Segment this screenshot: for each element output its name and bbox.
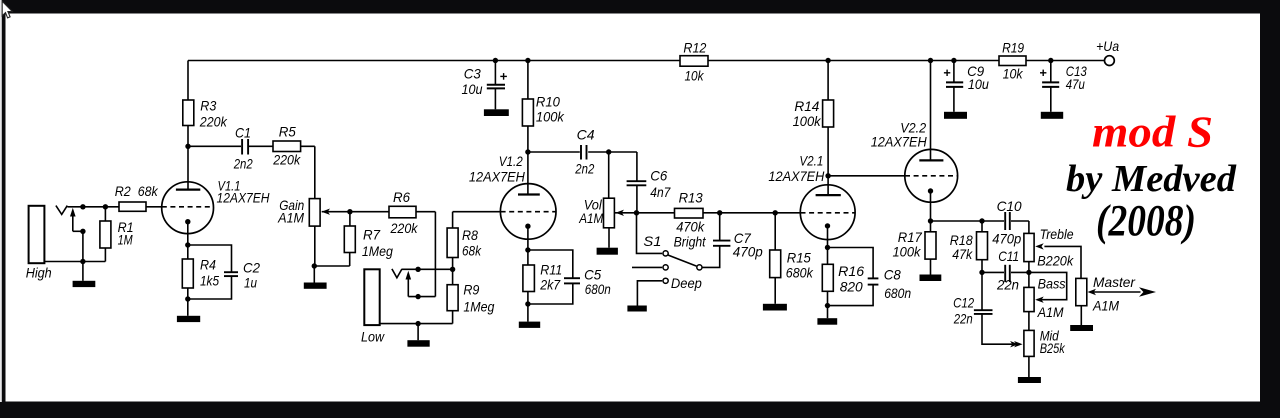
wire: C9 stem bbox=[953, 61, 955, 82]
svg-text:220k: 220k bbox=[390, 220, 419, 236]
svg-text:R4: R4 bbox=[200, 257, 216, 273]
svg-text:R8: R8 bbox=[462, 227, 478, 243]
wire: B+ supply rail bbox=[188, 60, 1105, 62]
ground (deep switch) bbox=[627, 306, 646, 312]
switch S1 contacts bbox=[663, 251, 668, 256]
ground (C13) bbox=[1041, 112, 1063, 119]
svg-text:S1: S1 bbox=[643, 233, 661, 249]
resistor R18 bbox=[977, 232, 988, 260]
svg-text:2n2: 2n2 bbox=[233, 156, 253, 172]
capacitor C8 bbox=[868, 277, 879, 279]
resistor R17 bbox=[925, 232, 936, 259]
svg-text:High: High bbox=[26, 264, 52, 280]
svg-text:R7: R7 bbox=[363, 227, 381, 243]
svg-text:C11: C11 bbox=[998, 248, 1019, 264]
potentiometer Bass bbox=[1024, 287, 1034, 311]
svg-text:R11: R11 bbox=[540, 262, 562, 278]
wire: S1 middle stub bbox=[632, 266, 662, 268]
svg-text:680n: 680n bbox=[884, 285, 911, 301]
node: row 2 junctions bbox=[979, 270, 984, 275]
svg-text:680k: 680k bbox=[786, 265, 814, 281]
svg-text:100k: 100k bbox=[793, 113, 822, 129]
svg-text:C2: C2 bbox=[243, 260, 260, 276]
ground (high jack) bbox=[73, 281, 96, 287]
white left sliver bbox=[0, 0, 2, 402]
wire: V2.2 cathode column bbox=[930, 191, 932, 221]
svg-text:A1M: A1M bbox=[1092, 298, 1119, 314]
resistor R9 bbox=[447, 285, 458, 311]
wire: V2.1 cathode column bbox=[827, 226, 829, 306]
resistor R11 bbox=[523, 265, 535, 292]
capacitor C5 bbox=[564, 277, 580, 279]
junction dots (input node) bbox=[80, 204, 85, 209]
wire: R3 anode column V1.1 bbox=[187, 61, 189, 190]
mouse cursor bbox=[2, 1, 12, 18]
svg-text:C3: C3 bbox=[464, 66, 481, 82]
ground (gain pot) bbox=[304, 283, 327, 289]
wire: C4 coupling row bbox=[528, 151, 637, 153]
svg-text:100k: 100k bbox=[536, 109, 565, 125]
svg-text:Treble: Treble bbox=[1040, 226, 1074, 242]
wire: S1 deep branch bbox=[637, 281, 662, 306]
wire: tone stack row 2 bbox=[982, 271, 1029, 273]
svg-text:68k: 68k bbox=[138, 183, 159, 199]
svg-text:+Ua: +Ua bbox=[1096, 38, 1119, 54]
wire: C6 column bbox=[636, 152, 638, 181]
svg-text:Deep: Deep bbox=[671, 275, 702, 291]
triode V2.2 bbox=[905, 149, 958, 202]
wire: bass to mid column bbox=[1028, 312, 1030, 331]
svg-text:R9: R9 bbox=[463, 282, 479, 298]
resistor R13 bbox=[675, 208, 704, 218]
wire: tone stack row 1 bbox=[931, 220, 1029, 222]
wire: C12 column to mid wiper bbox=[981, 272, 983, 310]
potentiometer Mid bbox=[1024, 330, 1034, 356]
wire: C2 bypass loop bbox=[188, 245, 232, 272]
wire: V2.2 anode column bbox=[930, 61, 932, 161]
capacitor C11 bbox=[1004, 265, 1011, 282]
electrolytic capacitor C3 bbox=[487, 84, 505, 86]
svg-text:B25k: B25k bbox=[1040, 340, 1066, 356]
resistor R15 bbox=[770, 250, 781, 278]
svg-text:C10: C10 bbox=[997, 198, 1022, 214]
svg-text:22n: 22n bbox=[953, 311, 973, 327]
svg-text:C6: C6 bbox=[650, 168, 667, 184]
ground (master pot) bbox=[1070, 325, 1093, 331]
node: gain cold junction bbox=[312, 263, 317, 268]
ground (V2.1 cathode) bbox=[817, 318, 837, 325]
node: V2.1 cathode junctions bbox=[825, 245, 830, 250]
svg-text:1M: 1M bbox=[118, 232, 133, 248]
ground (V1.2 cathode) bbox=[519, 322, 540, 328]
capacitor C1 bbox=[241, 139, 249, 155]
wire: R7 branch bbox=[349, 212, 351, 226]
wire: S1 bright column bbox=[637, 213, 663, 254]
ground (R17) bbox=[920, 275, 942, 282]
svg-text:47u: 47u bbox=[1066, 76, 1085, 92]
svg-text:10k: 10k bbox=[1003, 66, 1024, 82]
wire: R9 column bbox=[452, 269, 454, 323]
ground (C9) bbox=[944, 112, 967, 119]
electrolytic capacitor C13 bbox=[1042, 81, 1059, 83]
input jack Low bbox=[364, 269, 379, 325]
capacitor C2 bbox=[224, 271, 238, 273]
potentiometer Master bbox=[1076, 278, 1087, 305]
ground (low jack) bbox=[407, 340, 429, 347]
node: rail junctions C3 R10 bbox=[493, 58, 498, 63]
wire: Vol pot column bbox=[608, 152, 610, 198]
svg-text:B220k: B220k bbox=[1037, 253, 1074, 269]
svg-text:2k7: 2k7 bbox=[539, 277, 561, 293]
node: V1.2 anode / C4 junction bbox=[525, 149, 530, 154]
resistor R7 bbox=[344, 226, 355, 253]
svg-text:R10: R10 bbox=[536, 94, 560, 110]
resistor R6 bbox=[389, 206, 416, 218]
svg-text:220k: 220k bbox=[272, 152, 301, 168]
svg-text:470k: 470k bbox=[676, 218, 705, 234]
wire: high jack shorting contact bbox=[72, 217, 74, 232]
svg-text:Bass: Bass bbox=[1038, 276, 1066, 292]
capacitor C4 bbox=[580, 145, 588, 160]
svg-text:12AX7EH: 12AX7EH bbox=[768, 168, 825, 184]
jack tip contact V (Low) bbox=[392, 269, 402, 278]
ground (vol pot) bbox=[597, 248, 618, 255]
svg-text:1u: 1u bbox=[244, 275, 257, 291]
potentiometer Vol bbox=[604, 198, 615, 228]
node: V2.2 cathode junction bbox=[928, 218, 933, 223]
svg-text:820: 820 bbox=[840, 279, 863, 295]
svg-text:1Meg: 1Meg bbox=[463, 299, 494, 315]
svg-text:220k: 220k bbox=[199, 114, 228, 130]
svg-text:12AX7EH: 12AX7EH bbox=[469, 169, 526, 185]
wire: vol wiper row to V2.1 grid bbox=[615, 212, 801, 214]
wire: V2.1 anode to V2.2 grid bbox=[828, 175, 905, 177]
capacitor C10 bbox=[1004, 212, 1011, 230]
wire: C5 bypass loop bbox=[528, 250, 573, 278]
wire: treble wiper to master bbox=[1044, 246, 1081, 278]
wire: master wiper output bbox=[1090, 291, 1141, 293]
svg-text:C12: C12 bbox=[953, 295, 974, 311]
wire: C8 bypass loop bbox=[828, 248, 874, 279]
svg-text:100k: 100k bbox=[893, 244, 922, 260]
resistor R16 bbox=[822, 264, 833, 291]
node: R13/C7 junction bbox=[717, 210, 722, 215]
triode V1.1 bbox=[162, 182, 214, 234]
svg-text:(2008): (2008) bbox=[1096, 196, 1196, 245]
wire: R14 anode column V2.1 bbox=[827, 61, 829, 196]
svg-text:1k5: 1k5 bbox=[200, 273, 219, 289]
wire: bass wiper loop bbox=[1029, 272, 1067, 299]
svg-text:R14: R14 bbox=[794, 98, 819, 114]
resistor R14 bbox=[823, 100, 834, 127]
wire: R17 stem bbox=[930, 221, 932, 232]
svg-text:470p: 470p bbox=[733, 244, 763, 260]
node: rail junctions V2.2 C9 C13 bbox=[928, 58, 933, 63]
output arrow bbox=[1139, 287, 1156, 296]
wire: R1 column bbox=[104, 207, 106, 221]
svg-text:10u: 10u bbox=[462, 81, 483, 97]
resistor R5 bbox=[273, 141, 301, 152]
svg-text:12AX7EH: 12AX7EH bbox=[871, 134, 928, 150]
svg-text:R15: R15 bbox=[787, 250, 811, 266]
capacitor C12 bbox=[974, 309, 993, 311]
node: R3/C1 junction bbox=[185, 144, 190, 149]
svg-text:4n7: 4n7 bbox=[650, 184, 671, 200]
svg-text:R6: R6 bbox=[393, 189, 410, 205]
wire: low jack tip row bbox=[402, 268, 453, 270]
svg-text:C4: C4 bbox=[577, 127, 595, 143]
node: rail junction R14 bbox=[825, 58, 830, 63]
triode V1.2 bbox=[500, 184, 556, 240]
jack switch arrow (High) bbox=[70, 208, 76, 217]
wire: C1 coupling row bbox=[188, 145, 315, 147]
svg-text:10u: 10u bbox=[968, 76, 989, 92]
wire: V1.1 cathode column bbox=[187, 222, 189, 299]
svg-text:Master: Master bbox=[1093, 274, 1136, 290]
wire: R15 column bbox=[774, 213, 776, 250]
node: V1.2 cathode junctions bbox=[525, 247, 530, 252]
svg-text:R3: R3 bbox=[200, 98, 216, 114]
wire: R10 anode column V1.2 bbox=[527, 61, 529, 195]
svg-text:C8: C8 bbox=[884, 267, 901, 283]
resistor R2 bbox=[119, 202, 146, 211]
node: gain wiper / R7 junction bbox=[347, 209, 352, 214]
wire: R8 column and V1.2 grid bbox=[452, 212, 454, 270]
wire: low jack sleeve bbox=[380, 323, 453, 325]
svg-text:68k: 68k bbox=[462, 243, 482, 259]
svg-text:A1M: A1M bbox=[1037, 304, 1064, 320]
wire: Gain pot column bbox=[314, 146, 316, 198]
svg-text:470p: 470p bbox=[992, 231, 1021, 247]
svg-text:2n2: 2n2 bbox=[574, 161, 594, 177]
node: R18 top junction bbox=[979, 218, 984, 223]
resistor R3 bbox=[183, 100, 194, 126]
resistor R12 bbox=[680, 56, 708, 66]
svg-text:R19: R19 bbox=[1002, 39, 1024, 55]
wire: C3 filter stem bbox=[494, 61, 496, 85]
svg-text:A1M: A1M bbox=[277, 210, 304, 226]
capacitor C7 bbox=[713, 240, 730, 242]
ground (V1.1 cathode) bbox=[177, 316, 200, 322]
node +Ua terminal bbox=[1105, 56, 1115, 66]
node: R15 junction bbox=[773, 210, 778, 215]
wire: R6 drop to low-jack contact bbox=[434, 212, 436, 297]
resistor R8 bbox=[447, 228, 458, 258]
wire: gain wiper row to R6 bbox=[322, 211, 436, 213]
input jack High bbox=[29, 206, 45, 263]
svg-text:1Meg: 1Meg bbox=[362, 243, 393, 259]
svg-text:12AX7EH: 12AX7EH bbox=[217, 190, 271, 206]
wire: high jack sleeve row bbox=[44, 261, 105, 263]
ground (C3) bbox=[484, 109, 509, 116]
svg-text:V2.1: V2.1 bbox=[799, 153, 823, 169]
electrolytic capacitor C9 bbox=[946, 81, 963, 83]
jack tip contact V (High) bbox=[56, 206, 67, 215]
node: vol wiper junction bbox=[634, 210, 639, 215]
wire: V1.2 cathode column bbox=[527, 226, 529, 304]
potentiometer Gain bbox=[309, 199, 320, 227]
svg-text:Bright: Bright bbox=[674, 234, 707, 250]
ground (mid pot) bbox=[1018, 377, 1041, 383]
node: V2.1 anode junction bbox=[825, 173, 830, 178]
triode V2.1 bbox=[800, 185, 855, 240]
svg-text:V1.2: V1.2 bbox=[499, 153, 523, 169]
wire: R18 column bbox=[981, 221, 983, 232]
svg-text:A1M: A1M bbox=[578, 210, 603, 226]
node: C4 / Vol junction bbox=[606, 149, 611, 154]
svg-text:10k: 10k bbox=[685, 68, 705, 84]
jack switch arrow (Low) bbox=[406, 271, 412, 280]
wire: master cold stem bbox=[1080, 306, 1082, 325]
svg-text:mod S: mod S bbox=[1092, 108, 1213, 157]
node: V1.1 cathode junctions bbox=[185, 242, 190, 247]
svg-text:R2: R2 bbox=[115, 183, 131, 199]
svg-text:Low: Low bbox=[361, 329, 385, 345]
ground (R15) bbox=[763, 304, 787, 311]
capacitor C6 bbox=[627, 180, 647, 182]
node: low jack contacts bbox=[415, 267, 420, 272]
resistor R10 bbox=[522, 99, 533, 126]
wire: S1 blade bbox=[668, 255, 696, 266]
svg-text:R5: R5 bbox=[279, 124, 296, 140]
resistor R1 bbox=[100, 221, 111, 248]
resistor R19 bbox=[999, 56, 1026, 66]
wire: C7 to switch bbox=[703, 246, 720, 268]
svg-text:by Medved: by Medved bbox=[1066, 158, 1237, 200]
svg-text:C1: C1 bbox=[235, 125, 251, 141]
wire: high jack tip row bbox=[67, 206, 161, 208]
resistor R4 bbox=[182, 259, 193, 288]
svg-text:22n: 22n bbox=[996, 277, 1019, 293]
wire: C13 stem bbox=[1050, 61, 1052, 82]
potentiometer Treble bbox=[1024, 233, 1034, 261]
svg-text:47k: 47k bbox=[952, 246, 973, 262]
svg-text:R12: R12 bbox=[683, 39, 706, 55]
svg-text:R13: R13 bbox=[679, 190, 703, 206]
svg-text:680n: 680n bbox=[585, 281, 611, 297]
svg-text:R16: R16 bbox=[838, 263, 864, 279]
